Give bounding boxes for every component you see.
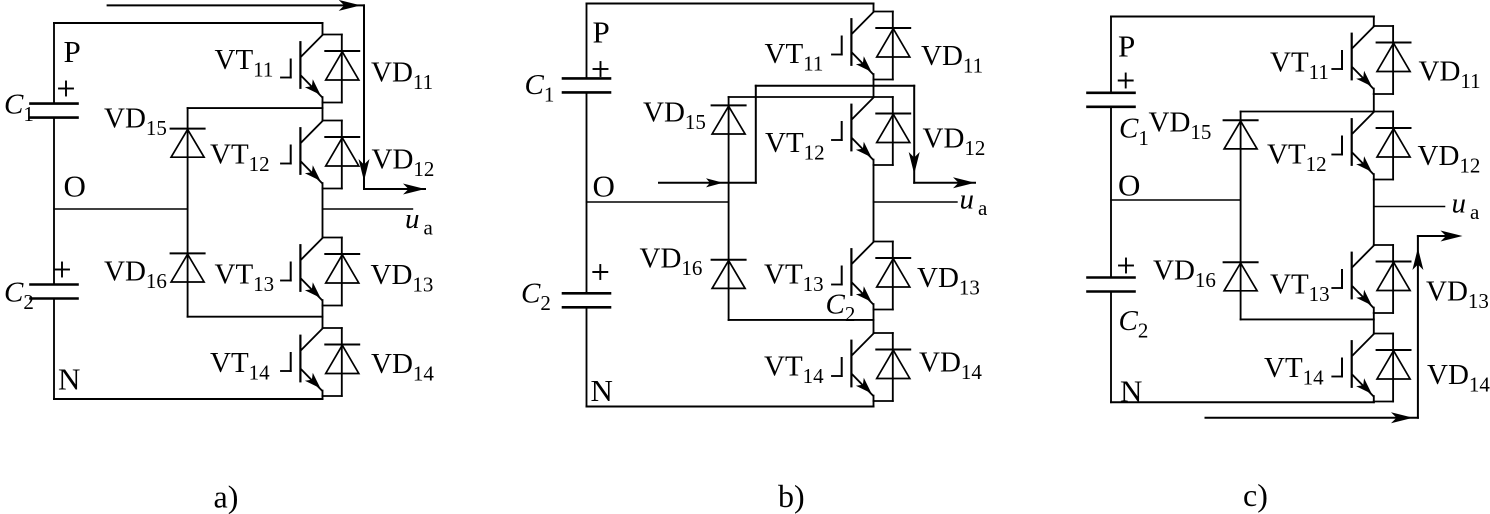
wire bridge junction VT12-VT13 with output node (a) [322,189,324,238]
wire bridge junction VT13-VT14 (c) [1373,313,1375,334]
wire clamp top connection (c) [1241,111,1374,113]
transistor VT13 (a) [281,238,342,306]
svg-text:VD11: VD11 [371,57,433,95]
svg-text:VD16: VD16 [104,255,167,293]
capacitor C1 (b) [563,78,610,92]
svg-text:VT14: VT14 [764,351,824,389]
svg-text:VD13: VD13 [371,259,434,297]
svg-text:C2: C2 [521,278,551,316]
svg-text:O: O [593,169,615,204]
svg-text:VT11: VT11 [215,44,274,82]
transistor VT12 (b) [832,97,893,165]
wire clamp branch vertical (c) [1240,112,1242,320]
svg-text:VD14: VD14 [371,348,434,386]
diode VD13 (a) [325,238,359,306]
wire bridge junction VT12-VT13 with output node (c) [1373,180,1375,246]
svg-text:ua: ua [405,203,434,240]
node N / negative rail (b) [587,406,874,408]
svg-text:b): b) [778,478,805,514]
capacitor C1 (a) [31,104,78,118]
svg-text:C1: C1 [4,89,34,127]
transistor VT13 (b) [832,242,893,310]
capacitor C2 (a) [31,285,78,299]
transistor VT12 (a) [281,121,342,189]
wire current path arrows (b) [659,86,975,189]
node N / negative rail (c) [1111,401,1374,403]
wire left DC-link rail (a) [53,23,55,104]
node N / negative rail (a) [54,398,323,400]
capacitor C2 (c) [1088,278,1135,292]
node P / positive rail (a) [54,22,323,24]
svg-text:VT13: VT13 [1270,269,1330,307]
diode VD13 (c) [1377,245,1411,313]
wire bridge junction VT13-VT14 (a) [322,306,324,329]
clamp diode VD15 (a) [171,129,205,158]
wire bridge junction VT12-VT13 with output node (b) [873,165,875,242]
svg-text:c): c) [1243,477,1268,513]
svg-text:O: O [1118,168,1140,203]
svg-text:VT12: VT12 [1267,139,1327,177]
svg-text:VD13: VD13 [1426,276,1489,314]
wire clamp branch vertical (b) [728,97,730,320]
polarity + of C2 (c) [1119,265,1133,267]
diode VD12 (c) [1377,112,1411,180]
svg-text:N: N [58,362,80,397]
svg-text:N: N [1120,374,1142,409]
transistor VT12 (c) [1332,112,1393,180]
wire current path arrows (a) [108,0,425,195]
node P / positive rail (c) [1111,16,1374,18]
wire bridge junction VT11-VT12 (c) [1373,94,1375,112]
transistor VT11 (b) [832,12,893,80]
svg-text:N: N [591,373,613,408]
svg-text:VD12: VD12 [923,123,986,161]
diode VD11 (a) [325,35,359,103]
polarity + of C1 (b) [594,68,608,70]
capacitor C2 (b) [563,293,610,307]
wire clamp branch vertical (a) [187,108,189,317]
svg-text:VD12: VD12 [372,144,435,182]
transistor VT14 (b) [832,333,893,401]
node O / midpoint wire (b) [587,201,729,203]
svg-text:C2: C2 [4,277,34,315]
clamp diode VD16 (b) [712,260,746,289]
polarity + of C2 (a) [55,269,69,271]
wire left DC-link rail (c) [1110,17,1112,93]
polarity + of C2 (b) [593,271,607,273]
svg-text:VD15: VD15 [643,97,706,135]
diode VD14 (b) [876,333,910,401]
diode VD12 (a) [325,121,359,189]
svg-text:VD12: VD12 [1418,140,1481,178]
node O / midpoint wire (c) [1111,199,1241,201]
svg-text:C1: C1 [525,69,555,107]
diode VD14 (a) [325,328,359,396]
polarity + of C1 (a) [59,88,73,90]
svg-text:VD13: VD13 [917,262,980,300]
transistor VT13 (c) [1332,245,1393,313]
svg-text:P: P [64,34,81,69]
svg-text:VD11: VD11 [921,40,983,78]
wire left DC-link rail (b) [586,4,588,79]
wire bridge junction VT11-VT12 (b) [873,80,875,98]
svg-text:VT11: VT11 [1270,47,1329,85]
svg-text:VT11: VT11 [765,38,824,76]
transistor VT14 (c) [1332,334,1393,402]
wire bridge junction VT13-VT14 (b) [873,310,875,334]
svg-text:VD16: VD16 [640,243,703,281]
node O / midpoint wire (a) [54,208,188,210]
wire output to ua (c) [1374,206,1445,208]
transistor VT11 (c) [1332,26,1393,94]
diode VD11 (b) [876,12,910,80]
svg-text:a): a) [214,479,239,514]
svg-text:VT13: VT13 [764,259,824,297]
diode VD13 (b) [876,242,910,310]
svg-text:VT14: VT14 [1264,352,1324,390]
wire clamp bottom connection (b) [729,319,874,321]
svg-text:ua: ua [1452,188,1481,225]
svg-text:VD16: VD16 [1153,254,1216,292]
transistor VT14 (a) [281,328,342,396]
svg-text:VT12: VT12 [210,139,270,177]
clamp diode VD16 (a) [171,253,205,282]
svg-text:P: P [593,15,610,50]
wire clamp bottom connection (a) [188,316,323,318]
svg-text:C1: C1 [1119,113,1149,151]
node P / positive rail (b) [587,3,874,5]
wire bridge junction VT11-VT12 (a) [322,103,324,121]
svg-text:O: O [64,169,86,204]
capacitor C1 (c) [1088,93,1135,107]
diode VD11 (c) [1377,26,1411,94]
wire output to ua (a) [323,208,413,210]
clamp diode VD15 (b) [712,105,746,134]
svg-text:C2: C2 [1119,305,1149,343]
wire clamp top connection (b) [729,96,874,98]
wire current path arrows (c) [1206,231,1463,424]
svg-text:VD14: VD14 [919,347,982,385]
polarity + of C1 (c) [1119,80,1133,82]
diode VD12 (b) [876,97,910,165]
svg-text:VD11: VD11 [1419,56,1481,94]
diode VD14 (c) [1377,334,1411,402]
wire output to ua (b) [874,201,958,203]
svg-text:VD14: VD14 [1427,359,1490,397]
wire clamp bottom connection (c) [1241,318,1374,320]
wire clamp top connection (a) [188,107,323,109]
svg-text:ua: ua [960,184,989,221]
svg-text:VT14: VT14 [210,347,270,385]
clamp diode VD15 (c) [1224,120,1258,149]
svg-text:VD15: VD15 [104,102,167,140]
clamp diode VD16 (c) [1224,262,1258,291]
transistor VT11 (a) [281,35,342,103]
svg-text:VT13: VT13 [215,259,275,297]
svg-text:VD15: VD15 [1149,107,1212,145]
svg-text:VT12: VT12 [765,127,825,165]
svg-text:P: P [1118,29,1135,64]
